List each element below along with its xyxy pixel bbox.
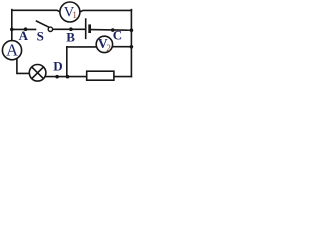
svg-text:B: B bbox=[66, 30, 75, 45]
svg-text:D: D bbox=[53, 58, 62, 73]
svg-text:S: S bbox=[37, 28, 44, 43]
svg-text:C: C bbox=[113, 28, 122, 43]
svg-text:2: 2 bbox=[106, 43, 111, 53]
svg-text:A: A bbox=[19, 28, 29, 43]
svg-text:A: A bbox=[6, 41, 18, 60]
svg-text:1: 1 bbox=[72, 10, 77, 20]
